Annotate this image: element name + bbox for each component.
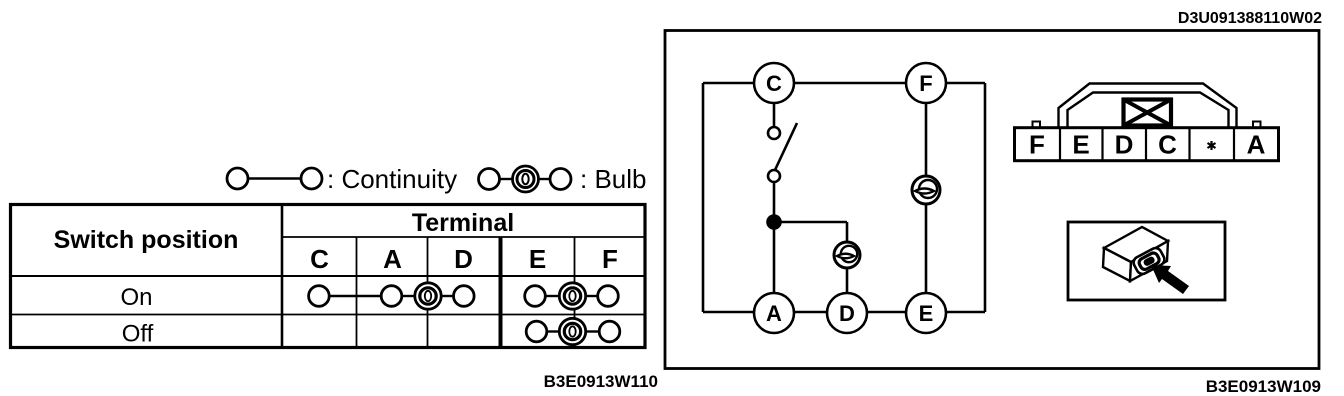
- wire: [248, 177, 301, 179]
- svg-text:: Continuity: : Continuity: [327, 164, 457, 194]
- switch contact upper: [768, 127, 780, 139]
- column line D|E thick: [499, 237, 503, 348]
- table outer border: [11, 205, 646, 348]
- connector cell border *|A: [1233, 128, 1235, 161]
- On row: bulb at E|F: [559, 283, 585, 309]
- connector bridge outer: [1059, 84, 1237, 128]
- arrow pointer: [1151, 265, 1189, 294]
- wire switch to junction: [773, 182, 776, 294]
- wire frame top: [703, 82, 985, 85]
- wire C to A: [329, 295, 381, 297]
- column line switch|C: [281, 203, 284, 348]
- On row: terminal C contact: [309, 286, 330, 307]
- legend continuity circle right: [301, 168, 322, 189]
- connector lock crossed box: [1124, 100, 1172, 126]
- connector cell border C|*: [1188, 128, 1190, 161]
- wire down to bulb D: [846, 222, 849, 244]
- wire frame left: [702, 83, 705, 312]
- connector cell border D|C: [1145, 128, 1147, 161]
- Off row: terminal E contact: [526, 321, 547, 342]
- connector cell border F|E: [1059, 128, 1061, 161]
- connector tab right: [1253, 122, 1261, 128]
- relay right face: [1130, 241, 1168, 281]
- svg-text:Switch position: Switch position: [54, 226, 239, 254]
- wire E to bulb: [545, 295, 559, 297]
- svg-text:C: C: [310, 244, 329, 274]
- wire C to switch: [773, 103, 776, 127]
- row line On|Off: [9, 314, 645, 316]
- svg-text:A: A: [766, 301, 782, 326]
- row line under letters: [9, 275, 645, 277]
- svg-text:D: D: [839, 301, 855, 326]
- connector body outline: [1015, 128, 1279, 161]
- svg-text:: Bulb: : Bulb: [580, 164, 647, 194]
- wire junction to D branch: [774, 221, 847, 224]
- connector tab left: [1033, 122, 1041, 128]
- On row: terminal F contact: [598, 286, 619, 307]
- svg-text:A: A: [1247, 130, 1266, 160]
- column line C|A: [356, 237, 358, 348]
- wire bulb to D: [441, 295, 453, 297]
- svg-text:On: On: [120, 284, 152, 311]
- bulb F-E: [912, 176, 940, 204]
- switch contact lower: [768, 170, 780, 182]
- wire bulb to F: [586, 295, 598, 297]
- relay left face: [1103, 248, 1131, 281]
- svg-text:F: F: [1029, 130, 1045, 160]
- wire bulb to D: [846, 266, 849, 294]
- legend bulb circle left: [479, 169, 500, 190]
- On row: terminal E contact: [525, 286, 546, 307]
- switch blade: [775, 123, 797, 170]
- connector bridge inner: [1068, 93, 1229, 128]
- connector cell border E|D: [1101, 128, 1103, 161]
- relay top face: [1104, 227, 1168, 262]
- svg-text:E: E: [919, 301, 934, 326]
- svg-text:E: E: [529, 244, 546, 274]
- svg-text:B3E0913W109: B3E0913W109: [1206, 377, 1321, 396]
- wire: [539, 178, 551, 180]
- svg-text:B3E0913W110: B3E0913W110: [544, 372, 658, 391]
- On row: bulb at A|D: [415, 283, 441, 309]
- Off row: terminal F contact: [599, 321, 620, 342]
- wire frame bottom: [703, 311, 985, 314]
- wire frame right: [984, 83, 987, 312]
- legend continuity circle left: [227, 168, 248, 189]
- panel border: [665, 31, 1319, 369]
- wire F to bulb: [925, 103, 928, 178]
- legend bulb circle right: [550, 169, 571, 190]
- svg-text:F: F: [602, 244, 618, 274]
- column line E|F: [574, 237, 576, 348]
- row line under Terminal: [282, 236, 645, 238]
- Off row: bulb at E|F: [559, 318, 585, 344]
- wire A to bulb: [402, 295, 415, 297]
- bulb D: [834, 242, 860, 268]
- svg-text:F: F: [919, 71, 932, 96]
- junction dot: [768, 216, 781, 229]
- svg-text:D: D: [1115, 130, 1134, 160]
- wire bulb to F: [586, 330, 600, 332]
- svg-text:A: A: [383, 244, 402, 274]
- wire E to bulb: [547, 330, 560, 332]
- terminal E: [906, 293, 946, 333]
- connector pin *: [1208, 141, 1216, 150]
- column line A|D: [427, 237, 429, 348]
- svg-text:Terminal: Terminal: [412, 209, 514, 237]
- inset box: [1068, 222, 1225, 300]
- svg-text:E: E: [1072, 130, 1089, 160]
- relay socket: [1132, 246, 1167, 276]
- legend bulb symbol: [513, 166, 539, 192]
- svg-text:C: C: [1158, 130, 1177, 160]
- svg-text:D3U091388110W02: D3U091388110W02: [1178, 10, 1322, 27]
- svg-text:Off: Off: [122, 321, 154, 348]
- terminal C: [754, 63, 794, 103]
- wire: [500, 178, 514, 180]
- On row: terminal A contact: [381, 286, 402, 307]
- svg-text:C: C: [766, 71, 782, 96]
- terminal D: [827, 293, 867, 333]
- wire bulb to E: [925, 202, 928, 294]
- terminal F: [906, 63, 946, 103]
- On row: terminal D contact: [454, 286, 475, 307]
- svg-text:D: D: [454, 244, 473, 274]
- terminal A: [754, 293, 794, 333]
